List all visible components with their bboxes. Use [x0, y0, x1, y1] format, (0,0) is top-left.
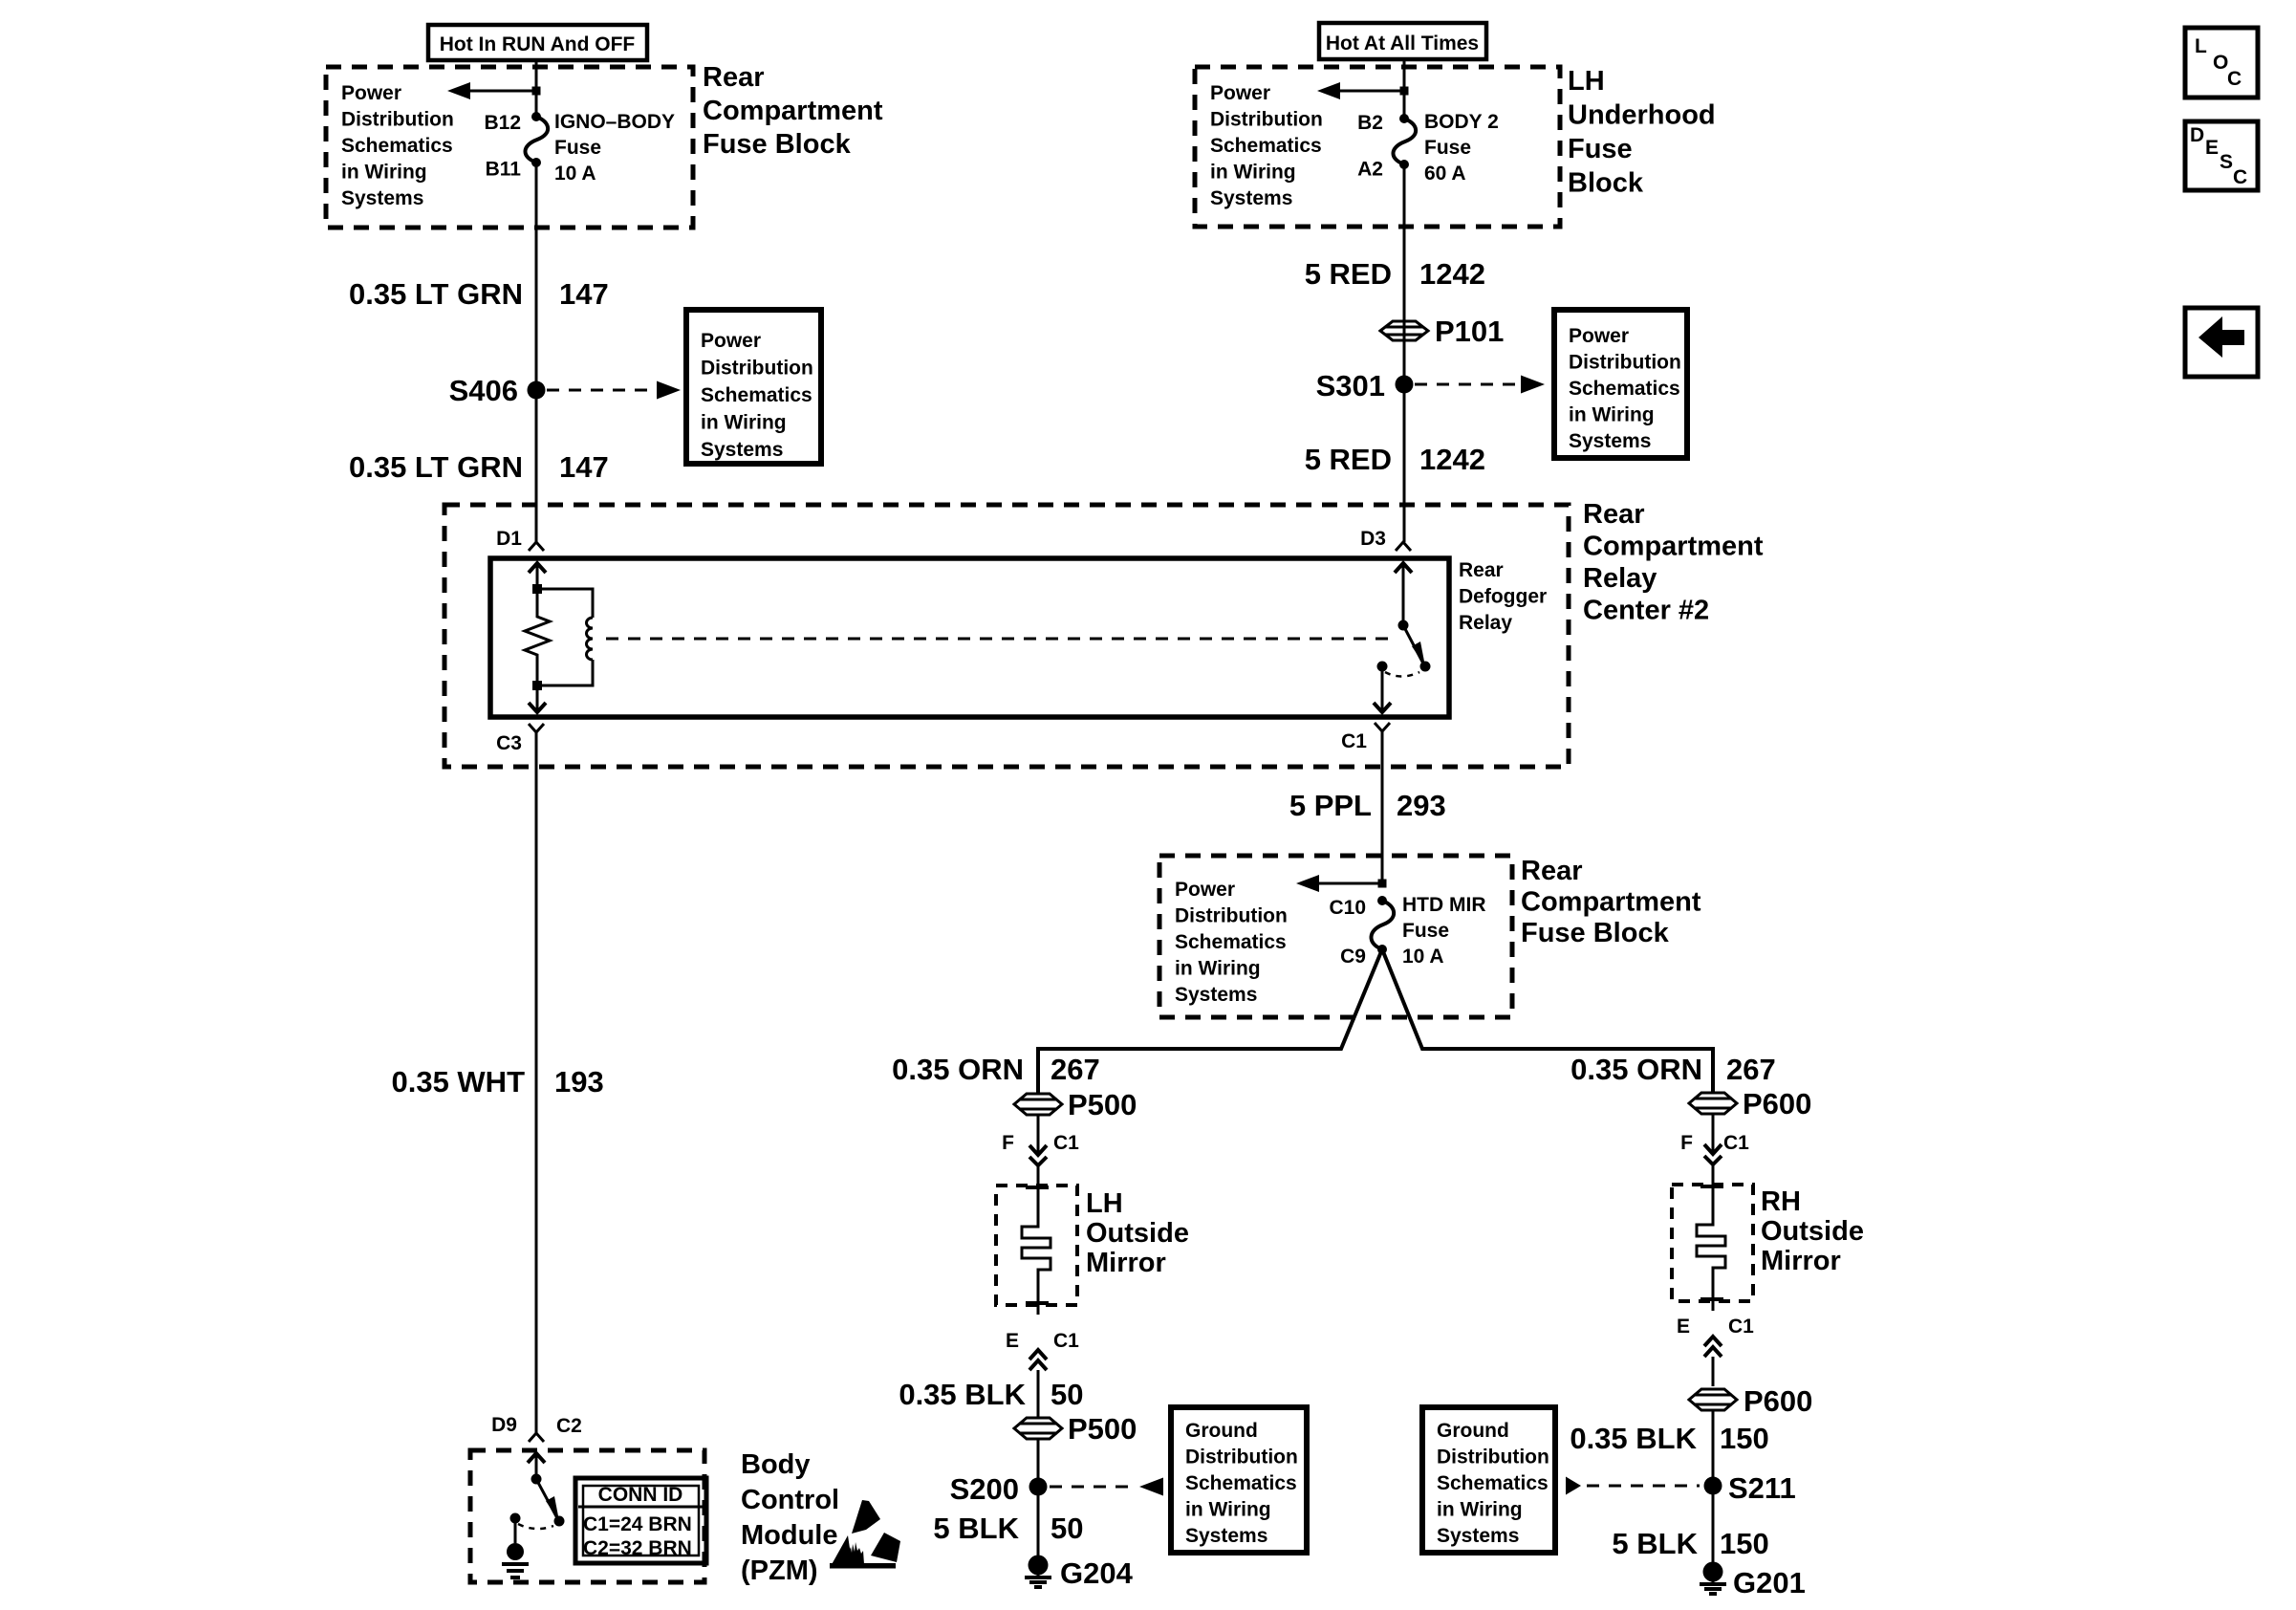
svg-text:Distribution: Distribution: [1185, 1447, 1298, 1469]
pass-through connector P101: [1380, 315, 1504, 348]
svg-text:C1: C1: [1728, 1316, 1754, 1338]
wire from Hot At All Times to fuse B2: [1403, 59, 1406, 119]
svg-text:60 A: 60 A: [1424, 163, 1466, 185]
svg-text:5 BLK: 5 BLK: [1612, 1527, 1698, 1560]
svg-text:P500: P500: [1068, 1088, 1137, 1121]
label box "Hot In RUN And OFF": [428, 25, 647, 60]
relay coil branch wire: [537, 589, 593, 618]
relay junction node bottom: [532, 681, 542, 690]
connector Y at D3: [1396, 542, 1411, 551]
svg-text:Schematics: Schematics: [1437, 1472, 1549, 1494]
wire from fuse C9 to RH mirror feed: [1382, 949, 1713, 1093]
in-line connector arrow and Y (RH top): [1704, 1144, 1722, 1190]
svg-text:Body: Body: [741, 1449, 811, 1480]
svg-text:S301: S301: [1316, 369, 1385, 402]
svg-text:C1: C1: [1053, 1330, 1079, 1352]
fuse BODY 2 60 A: [1393, 111, 1498, 185]
svg-text:Power: Power: [701, 330, 761, 352]
dashed reference arrow S200 to ground distribution box: [1050, 1478, 1163, 1496]
connector Y at D9/C2: [529, 1433, 544, 1442]
relay switch contact (output): [1377, 662, 1388, 672]
wire P600 to RH mirror connector: [1712, 1114, 1715, 1151]
label 0.35 BLK 150: [1570, 1422, 1768, 1455]
svg-text:CONN ID: CONN ID: [598, 1484, 683, 1506]
svg-text:C1: C1: [1723, 1132, 1749, 1154]
svg-text:in Wiring: in Wiring: [1175, 958, 1261, 980]
svg-text:Distribution: Distribution: [1437, 1447, 1549, 1469]
wire 5 PPL 293 (relay C1 to fuse block): [1381, 731, 1384, 883]
label "Rear Compartment Fuse Block": [1521, 856, 1701, 948]
svg-text:Fuse: Fuse: [1568, 134, 1633, 164]
reference box "Ground Distribution Schematics in Wiring Systems" (left): [1171, 1407, 1307, 1553]
label "RH Outside Mirror": [1761, 1186, 1864, 1276]
CONN ID table: [575, 1478, 706, 1563]
svg-text:Distribution: Distribution: [1569, 352, 1681, 374]
svg-text:P600: P600: [1744, 1384, 1812, 1418]
svg-text:150: 150: [1720, 1527, 1769, 1560]
svg-text:Rear: Rear: [703, 62, 765, 93]
svg-text:Ground: Ground: [1437, 1420, 1509, 1442]
svg-text:5 PPL: 5 PPL: [1289, 789, 1372, 822]
label 5 PPL 293: [1289, 789, 1446, 822]
svg-text:Power: Power: [1210, 82, 1270, 104]
svg-text:Systems: Systems: [701, 439, 783, 461]
svg-text:Relay: Relay: [1583, 563, 1657, 594]
svg-text:E: E: [2205, 137, 2219, 159]
svg-text:Schematics: Schematics: [1210, 135, 1322, 157]
svg-text:10 A: 10 A: [554, 163, 596, 185]
svg-text:in Wiring: in Wiring: [1185, 1499, 1271, 1521]
relay resistor: [525, 594, 550, 681]
relay coil-side pin arrow (D1 inside): [529, 563, 546, 589]
svg-text:E: E: [1677, 1316, 1690, 1338]
svg-text:Schematics: Schematics: [341, 135, 453, 157]
svg-text:D1: D1: [496, 528, 522, 550]
splice S301: [1316, 369, 1414, 402]
label 0.35 LT GRN 147 (second): [349, 450, 609, 484]
svg-text:Defogger: Defogger: [1459, 586, 1547, 608]
svg-text:Fuse Block: Fuse Block: [703, 129, 852, 160]
svg-text:P101: P101: [1435, 315, 1504, 348]
svg-text:Control: Control: [741, 1485, 839, 1515]
relay output arrow (C1 inside): [1374, 671, 1391, 712]
svg-text:C3: C3: [496, 732, 522, 754]
relay coil-side exit arrow (C3 inside): [529, 690, 546, 712]
label 0.35 ORN 267 (RH): [1570, 1053, 1776, 1086]
svg-text:Systems: Systems: [1437, 1525, 1519, 1547]
BCM switch blade with arrowhead: [536, 1479, 559, 1521]
note "Power Distribution Schematics in Wiring Systems": [1175, 879, 1288, 1006]
dashed reference arrow ground box to S211: [1566, 1477, 1700, 1495]
svg-text:0.35 BLK: 0.35 BLK: [899, 1378, 1026, 1411]
note "Power Distribution Schematics in Wiring Systems": [341, 82, 454, 209]
svg-text:Systems: Systems: [1569, 430, 1651, 452]
svg-text:Schematics: Schematics: [701, 384, 812, 406]
svg-text:C2: C2: [556, 1415, 582, 1437]
svg-text:E: E: [1006, 1330, 1019, 1352]
svg-text:Hot In RUN And OFF: Hot In RUN And OFF: [440, 33, 636, 55]
svg-text:in Wiring: in Wiring: [701, 412, 787, 434]
svg-text:(PZM): (PZM): [741, 1556, 818, 1586]
BCM switch contact (blade end): [554, 1516, 565, 1527]
svg-text:C9: C9: [1340, 946, 1366, 968]
svg-text:HTD MIR: HTD MIR: [1402, 894, 1486, 916]
svg-text:5 RED: 5 RED: [1305, 443, 1392, 476]
svg-text:5 RED: 5 RED: [1305, 257, 1392, 291]
BCM switch contact (ground side): [510, 1513, 521, 1524]
svg-text:267: 267: [1726, 1053, 1776, 1086]
svg-text:B2: B2: [1357, 112, 1383, 134]
label 0.35 BLK 50: [899, 1378, 1083, 1411]
Rear Compartment Fuse Block #2 dashed box: [1159, 856, 1512, 1017]
wire 0.35 LT GRN 147 (fuse B11 to S406): [535, 163, 538, 390]
svg-text:C1: C1: [1053, 1132, 1079, 1154]
splice S211: [1704, 1471, 1796, 1505]
wire 0.35 WHT 193 (relay C3 to BCM D9): [535, 732, 538, 1433]
svg-text:50: 50: [1051, 1378, 1083, 1411]
fuse IGNO-BODY 10 A: [525, 111, 675, 185]
pass-through connector P500 (lower): [1014, 1412, 1137, 1446]
svg-text:F: F: [1680, 1132, 1693, 1154]
label 0.35 LT GRN 147: [349, 277, 609, 311]
relay control dashed link (coil to switch): [606, 638, 1392, 641]
svg-text:Ground: Ground: [1185, 1420, 1258, 1442]
BCM switch dashed throw arc: [518, 1524, 553, 1529]
svg-text:Schematics: Schematics: [1185, 1472, 1297, 1494]
svg-text:Mirror: Mirror: [1761, 1246, 1841, 1276]
label 0.35 ORN 267 (LH): [892, 1053, 1100, 1086]
svg-text:G201: G201: [1733, 1566, 1806, 1599]
svg-text:Fuse: Fuse: [1402, 920, 1449, 942]
svg-text:F: F: [1002, 1132, 1014, 1154]
svg-text:S406: S406: [449, 374, 518, 407]
BCM internal ground: [502, 1522, 529, 1577]
in-line connector arrow and Y (RH bottom, pointing up): [1704, 1337, 1722, 1386]
relay coil branch return wire: [537, 660, 593, 685]
svg-text:Fuse Block: Fuse Block: [1521, 918, 1670, 948]
Rear Compartment Fuse Block dashed box: [326, 67, 693, 228]
svg-text:147: 147: [559, 450, 609, 484]
label "Rear Compartment Relay Center #2": [1583, 499, 1764, 626]
svg-text:Hot At All Times: Hot At All Times: [1326, 33, 1479, 54]
in-line connector arrow and Y (LH bottom, pointing up): [1029, 1350, 1047, 1417]
relay coil: [587, 618, 593, 660]
connector Y at D1: [529, 542, 544, 551]
svg-text:0.35 LT GRN: 0.35 LT GRN: [349, 277, 523, 311]
svg-text:Systems: Systems: [1185, 1525, 1267, 1547]
svg-text:BODY 2: BODY 2: [1424, 111, 1499, 133]
svg-text:Systems: Systems: [341, 187, 423, 209]
ESD sensitive device symbol: [830, 1500, 900, 1569]
svg-text:O: O: [2213, 52, 2228, 74]
wire P500 to LH mirror connector: [1037, 1115, 1040, 1152]
wire 5 RED 1242 (fuse A2 to S301): [1403, 164, 1406, 384]
reference box "Power Distribution Schematics in Wiring Systems" (left): [686, 310, 821, 464]
wire from Hot In RUN And OFF to fuse B12: [535, 60, 538, 117]
svg-text:1242: 1242: [1419, 257, 1485, 291]
splice S200: [950, 1472, 1048, 1506]
reference box "Ground Distribution Schematics in Wiring Systems" (right): [1422, 1407, 1555, 1553]
svg-text:150: 150: [1720, 1422, 1769, 1455]
LH Outside Mirror dashed box: [996, 1186, 1077, 1305]
pin E / C1 labels (LH bottom): [1006, 1330, 1079, 1352]
svg-text:Compartment: Compartment: [1583, 532, 1764, 562]
Rear Compartment Relay Center #2 dashed box: [444, 505, 1569, 767]
relay switch-side pin arrow (D3 inside): [1395, 563, 1412, 625]
svg-text:S: S: [2220, 151, 2233, 173]
svg-text:C: C: [2227, 68, 2242, 90]
svg-text:in Wiring: in Wiring: [341, 162, 427, 184]
svg-text:10 A: 10 A: [1402, 946, 1444, 968]
svg-text:Mirror: Mirror: [1086, 1248, 1166, 1278]
svg-text:in Wiring: in Wiring: [1569, 404, 1655, 426]
pass-through connector P500: [1014, 1088, 1137, 1121]
svg-text:0.35 LT GRN: 0.35 LT GRN: [349, 450, 523, 484]
svg-text:Module: Module: [741, 1520, 838, 1551]
svg-text:0.35 ORN: 0.35 ORN: [892, 1053, 1024, 1086]
svg-text:in Wiring: in Wiring: [1210, 162, 1296, 184]
svg-text:Schematics: Schematics: [1175, 931, 1287, 953]
svg-text:1242: 1242: [1419, 443, 1485, 476]
RH mirror heater element: [1697, 1190, 1725, 1311]
svg-text:Compartment: Compartment: [703, 96, 883, 126]
svg-text:Power: Power: [1569, 325, 1629, 347]
svg-text:Compartment: Compartment: [1521, 887, 1701, 918]
svg-text:Systems: Systems: [1175, 984, 1257, 1006]
splice S406: [449, 374, 546, 407]
svg-text:193: 193: [554, 1065, 604, 1099]
svg-text:0.35 BLK: 0.35 BLK: [1570, 1422, 1697, 1455]
svg-text:A2: A2: [1357, 159, 1383, 181]
rear defogger relay solid box: [490, 558, 1449, 717]
relay switch pivot: [1398, 620, 1409, 631]
svg-text:50: 50: [1051, 1512, 1083, 1545]
pin F / C1 labels (RH top): [1680, 1132, 1749, 1154]
dashed reference arrow S301 to power distribution box: [1415, 376, 1545, 394]
back arrow icon box: [2185, 308, 2258, 377]
DESC icon box: [2185, 121, 2258, 190]
RH Outside Mirror dashed box: [1672, 1185, 1753, 1301]
svg-text:Center #2: Center #2: [1583, 596, 1709, 626]
svg-text:C: C: [2233, 166, 2247, 188]
in-line connector arrow and Y (LH top): [1029, 1145, 1047, 1191]
BCM input arrow (C2 inside): [528, 1453, 545, 1479]
label 5 RED 1242: [1305, 257, 1485, 291]
label "Body Control Module (PZM)": [741, 1449, 839, 1586]
svg-text:Underhood: Underhood: [1568, 100, 1716, 131]
svg-text:Outside: Outside: [1761, 1216, 1864, 1247]
relay switch dashed throw arc: [1385, 672, 1419, 677]
fuse HTD MIR 10 A: [1371, 894, 1485, 968]
dashed reference arrow S406 to power distribution box: [547, 381, 681, 400]
ground G204: [1025, 1556, 1134, 1591]
label "Rear Compartment Fuse Block": [703, 62, 883, 160]
wire 0.35 LT GRN 147 (S406 to relay D1): [535, 390, 538, 542]
svg-text:Distribution: Distribution: [1175, 905, 1288, 927]
svg-text:147: 147: [559, 277, 609, 311]
label 5 BLK 150: [1612, 1527, 1768, 1560]
svg-text:RH: RH: [1761, 1186, 1801, 1217]
label 5 BLK 50: [933, 1512, 1083, 1545]
svg-text:Distribution: Distribution: [341, 109, 454, 131]
svg-text:C1=24 BRN: C1=24 BRN: [583, 1513, 692, 1535]
svg-text:S211: S211: [1728, 1471, 1796, 1505]
svg-text:S200: S200: [950, 1472, 1019, 1506]
Body Control Module dashed box: [470, 1450, 704, 1582]
label 5 RED 1242 (second): [1305, 443, 1485, 476]
pass-through connector P600: [1689, 1087, 1811, 1120]
svg-text:C10: C10: [1329, 897, 1366, 919]
svg-text:P500: P500: [1068, 1412, 1137, 1446]
wire from fuse C9 to LH mirror feed: [1038, 949, 1382, 1093]
label "Rear Defogger Relay": [1459, 559, 1547, 634]
reference box "Power Distribution Schematics in Wiring Systems" (right): [1554, 310, 1687, 458]
pass-through connector P600 (lower): [1689, 1384, 1812, 1418]
wire arrow to power distribution (left): [447, 82, 541, 99]
svg-text:Outside: Outside: [1086, 1218, 1189, 1249]
LH mirror heater element: [1022, 1191, 1051, 1315]
svg-text:C1: C1: [1341, 730, 1367, 752]
svg-text:Schematics: Schematics: [1569, 378, 1680, 400]
svg-text:C2=32 BRN: C2=32 BRN: [583, 1537, 692, 1559]
svg-text:Fuse: Fuse: [1424, 137, 1471, 159]
LOC icon box: [2185, 28, 2258, 98]
svg-text:P600: P600: [1743, 1087, 1811, 1120]
connector Y at C3: [529, 724, 544, 732]
svg-text:Fuse: Fuse: [554, 137, 601, 159]
pin F / C1 labels (LH top): [1002, 1132, 1079, 1154]
label box "Hot At All Times": [1319, 23, 1486, 59]
wire P600 to S211: [1712, 1410, 1715, 1562]
svg-text:Power: Power: [1175, 879, 1235, 901]
wire P500 to S200: [1037, 1439, 1040, 1556]
label "LH Outside Mirror": [1086, 1188, 1189, 1278]
ground G201: [1700, 1562, 1806, 1600]
svg-text:267: 267: [1051, 1053, 1100, 1086]
BCM switch pivot: [531, 1474, 542, 1485]
svg-text:in Wiring: in Wiring: [1437, 1499, 1523, 1521]
svg-text:Distribution: Distribution: [1210, 109, 1323, 131]
svg-text:293: 293: [1397, 789, 1446, 822]
svg-text:0.35 ORN: 0.35 ORN: [1570, 1053, 1702, 1086]
svg-text:Systems: Systems: [1210, 187, 1292, 209]
wire arrow to power distribution (left): [1317, 82, 1409, 99]
svg-text:D3: D3: [1360, 528, 1386, 550]
svg-text:LH: LH: [1568, 66, 1605, 97]
relay switch blade with arrowhead: [1403, 625, 1425, 666]
svg-text:B11: B11: [486, 159, 522, 181]
relay junction node top: [532, 584, 542, 594]
svg-text:LH: LH: [1086, 1188, 1123, 1219]
svg-text:Distribution: Distribution: [701, 358, 813, 380]
svg-text:Block: Block: [1568, 168, 1644, 199]
label "LH Underhood Fuse Block": [1568, 66, 1716, 199]
svg-text:IGNO–BODY: IGNO–BODY: [554, 111, 675, 133]
wire arrow to power distribution (left): [1296, 875, 1387, 892]
svg-text:Relay: Relay: [1459, 612, 1512, 634]
label 0.35 WHT 193: [391, 1065, 603, 1099]
svg-text:5 BLK: 5 BLK: [933, 1512, 1019, 1545]
wire 5 RED 1242 (S301 to relay D3): [1403, 384, 1406, 542]
svg-text:Rear: Rear: [1521, 856, 1583, 886]
note "Power Distribution Schematics in Wiring Systems": [1210, 82, 1323, 209]
svg-text:D9: D9: [491, 1414, 517, 1436]
LH Underhood Fuse Block dashed box: [1195, 67, 1560, 227]
connector Y at C1: [1375, 723, 1390, 731]
svg-text:B12: B12: [484, 112, 521, 134]
svg-text:D: D: [2190, 124, 2204, 146]
svg-text:L: L: [2195, 35, 2207, 57]
svg-text:Rear: Rear: [1583, 499, 1645, 530]
pin E / C1 labels (RH bottom): [1677, 1316, 1754, 1338]
relay switch contact (blade end): [1420, 662, 1431, 672]
svg-text:G204: G204: [1060, 1556, 1134, 1590]
svg-text:Power: Power: [341, 82, 401, 104]
svg-text:Rear: Rear: [1459, 559, 1504, 581]
svg-text:0.35 WHT: 0.35 WHT: [391, 1065, 525, 1099]
